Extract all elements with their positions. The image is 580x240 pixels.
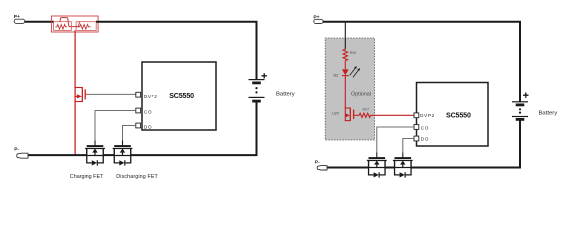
wire R05 to LED D2	[344, 61, 346, 70]
svg-text:R07: R07	[363, 108, 370, 112]
terminal P- (left)	[14, 147, 28, 159]
optional block (gray dashed box)	[325, 38, 374, 140]
wire DO to discharging FET gate	[123, 126, 136, 141]
wire CO to charging FET gate	[95, 111, 136, 141]
resistor R05 (red, vertical)	[343, 49, 356, 60]
svg-text:Charging FET: Charging FET	[70, 174, 104, 180]
wire rail between FETs (right)	[385, 167, 395, 169]
terminal P- (right)	[315, 160, 327, 170]
svg-text:DO: DO	[144, 124, 152, 129]
terminal P+ (left)	[14, 14, 25, 23]
svg-text:R05: R05	[350, 51, 357, 55]
pin DVP2 (right IC)	[414, 113, 435, 118]
svg-text:P+: P+	[14, 14, 20, 20]
battery BT1 (left)	[249, 73, 295, 101]
svg-text:P-: P-	[14, 147, 19, 153]
sense resistor network (red box)	[51, 16, 98, 32]
LED D2 (red)	[334, 66, 361, 77]
svg-text:CO: CO	[421, 125, 429, 130]
wire P- to charging FET (right)	[327, 167, 369, 169]
pin DV*2 (left IC)	[136, 92, 158, 99]
svg-text:P-: P-	[315, 160, 320, 166]
transistor discharging FET (left)	[113, 145, 133, 166]
wire gate of Q1 to pin DV*2 (gray)	[90, 93, 136, 95]
pin CO (left IC)	[136, 108, 152, 114]
svg-text:D2: D2	[334, 73, 339, 77]
transistor discharging FET (right)	[393, 157, 413, 178]
svg-text:SC5550: SC5550	[169, 92, 194, 100]
svg-text:DV*2: DV*2	[144, 94, 158, 99]
wire CO to charging FET gate (right)	[377, 127, 414, 153]
wire discharging FET to battery (right)	[411, 119, 520, 167]
wire red tap from sense box to P- rail	[74, 30, 76, 155]
transistor Q1 (red, high-side sense FET)	[74, 87, 89, 102]
wire top rail into optional block	[344, 22, 346, 50]
wire rail between FETs (left)	[103, 154, 114, 156]
transistor U2X (red, in optional block)	[332, 108, 353, 122]
battery BT2 (right)	[512, 93, 557, 120]
svg-text:DVP2: DVP2	[420, 113, 435, 118]
wire top rail to battery (left)	[96, 22, 257, 80]
svg-text:Battery: Battery	[276, 91, 295, 97]
transistor charging FET (right)	[367, 157, 387, 178]
svg-text:SC5550: SC5550	[446, 111, 471, 119]
svg-text:P+: P+	[313, 14, 319, 20]
wire top rail to battery (right)	[323, 22, 520, 102]
wire battery to bottom rail (left)	[131, 101, 257, 155]
terminal P+ (right)	[313, 14, 323, 23]
pin DO (left IC)	[136, 123, 152, 129]
pin CO (right IC)	[414, 125, 429, 131]
wire R07 to pin DVP2 (red)	[371, 114, 415, 116]
IC U1 SC5550 (left)	[142, 62, 216, 130]
svg-text:U2X: U2X	[332, 112, 340, 116]
svg-text:Discharging FET: Discharging FET	[116, 174, 158, 180]
resistor R07 (red, horizontal)	[354, 108, 370, 118]
IC U3 SC5550 (right)	[417, 83, 489, 147]
svg-text:DO: DO	[421, 136, 429, 141]
pin DO (right IC)	[414, 136, 429, 141]
wire DO to discharging FET gate (right)	[403, 139, 414, 153]
svg-text:CO: CO	[144, 109, 152, 114]
svg-text:Battery: Battery	[539, 110, 558, 116]
wire P- to charging FET (left)	[28, 154, 87, 156]
transistor charging FET (left)	[85, 145, 105, 166]
wire LED to Q2	[344, 76, 346, 108]
wire P+ to sense box	[25, 21, 54, 23]
svg-text:Optional: Optional	[351, 91, 371, 97]
